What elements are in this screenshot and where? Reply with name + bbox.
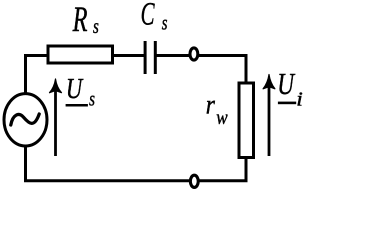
arrow U_s <box>54 90 57 156</box>
resistor r_w <box>239 83 254 158</box>
wire: node B to bottom-left corner up to source <box>26 145 190 181</box>
svg-text:i: i <box>296 87 303 110</box>
wire: resistor R_s to capacitor C_s <box>113 54 145 57</box>
wire: node A to top-right corner down to r_w <box>199 56 246 84</box>
svg-text:w: w <box>216 107 228 128</box>
capacitor C_s <box>145 41 155 74</box>
wire: capacitor C_s to node A <box>157 54 190 57</box>
sine symbol <box>11 114 39 125</box>
node B (bottom terminal) <box>190 175 198 187</box>
svg-text:R: R <box>72 0 88 39</box>
node A (top terminal) <box>190 48 198 60</box>
svg-text:s: s <box>162 11 168 34</box>
svg-text:r: r <box>206 89 216 120</box>
resistor R_s <box>48 46 113 63</box>
svg-text:s: s <box>93 15 99 38</box>
arrow U_i <box>268 87 271 156</box>
svg-text:s: s <box>89 87 95 110</box>
svg-text:C: C <box>141 0 155 32</box>
svg-text:U: U <box>277 67 295 101</box>
underline of U_s <box>66 104 88 107</box>
AC source <box>4 94 47 146</box>
wire: source top to top-left corner to resistor R_s <box>26 56 48 96</box>
wire: r_w bottom to bottom-right corner to node B <box>200 158 246 181</box>
underline of U_i <box>278 102 296 105</box>
svg-text:U: U <box>66 73 84 105</box>
